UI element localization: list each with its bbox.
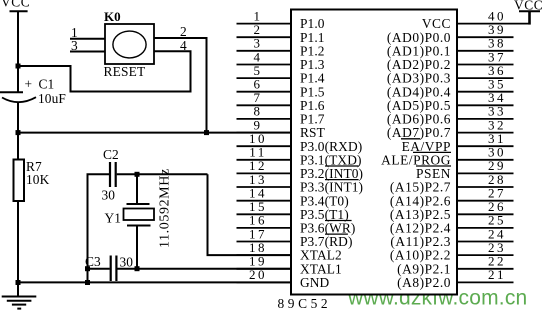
capacitor C2 30pF (102, 147, 119, 203)
wire pin 40 stub (457, 23, 530, 25)
svg-text:40: 40 (488, 8, 506, 23)
svg-text:3: 3 (71, 38, 78, 53)
wire pin 8 stub (237, 118, 292, 120)
wire pin 27 stub (457, 200, 514, 202)
svg-text:Y1: Y1 (105, 211, 122, 226)
svg-text:VCC: VCC (1, 0, 30, 10)
wire pin 22 stub (457, 268, 514, 270)
resistor R7 10K (14, 159, 50, 201)
node junction pin2 wire to RST wire (204, 130, 209, 135)
wire button pin3 stub (70, 51, 105, 53)
node junction rail to button wire (16, 64, 21, 69)
wire pin 20 stub (237, 281, 292, 283)
wire pin 5 stub (237, 77, 292, 79)
ground symbol (2, 297, 37, 309)
svg-text:4: 4 (180, 38, 187, 53)
wire rail below C1 to ground (17, 103, 19, 297)
wire pin 35 stub (457, 91, 514, 93)
wire pin 6 stub (237, 91, 292, 93)
svg-text:(A8)P2.0: (A8)P2.0 (397, 275, 451, 290)
svg-text:RESET: RESET (104, 64, 146, 79)
wire pin 23 stub (457, 254, 514, 256)
svg-text:20: 20 (249, 267, 267, 282)
wire pin 12 stub (237, 172, 292, 174)
wire pin 34 stub (457, 104, 514, 106)
wire pin 21 stub (457, 281, 514, 283)
wire pin 29 stub (457, 172, 514, 174)
wire pin 19 stub (237, 268, 292, 270)
wire pin 28 stub (457, 186, 514, 188)
wire pin 24 stub (457, 241, 514, 243)
wire C2 right to XTAL2 node (117, 173, 208, 175)
svg-text:+: + (25, 77, 33, 92)
wire pin 14 stub (237, 200, 292, 202)
node junction C3 left ground branch (85, 266, 90, 271)
wire pin 10 stub (237, 145, 292, 147)
svg-text:GND: GND (300, 275, 330, 290)
wire pin 1 stub (237, 23, 292, 25)
wire pin 37 stub (457, 64, 514, 66)
IC U1 89C52 body (291, 10, 457, 295)
wire pin 30 stub (457, 159, 514, 161)
node junction rail to ground wire (16, 280, 21, 285)
svg-text:C2: C2 (103, 147, 119, 162)
svg-text:11.0592MHz: 11.0592MHz (158, 168, 173, 248)
wire pin 9 stub (237, 132, 292, 134)
wire pin 36 stub (457, 77, 514, 79)
wire pin 13 stub (237, 186, 292, 188)
wire pin 31 stub (457, 145, 514, 147)
wire XTAL2 node down to pin 18 (208, 174, 292, 255)
wire pin 39 stub (457, 36, 514, 38)
svg-text:10K: 10K (26, 172, 50, 187)
node junction rail to RST wire (16, 130, 21, 135)
capacitor C3 30pF (85, 254, 133, 281)
wire VCC rail vertical (17, 11, 19, 91)
svg-text:30: 30 (120, 255, 134, 270)
crystal Y1 (105, 174, 155, 268)
svg-text:30: 30 (102, 188, 116, 203)
wire pin 25 stub (457, 227, 514, 229)
wire pin 11 stub (237, 159, 292, 161)
svg-text:2: 2 (180, 24, 187, 39)
node junction ground branch ground wire (85, 280, 90, 285)
VCC power symbol top right (514, 0, 543, 25)
wire pin 7 stub (237, 104, 292, 106)
wire button pin4 to VCC rail junction (18, 51, 191, 91)
wire pin 33 stub (457, 118, 514, 120)
wire pin 32 stub (457, 132, 514, 134)
wire pin 2 stub (237, 36, 292, 38)
svg-text:C1: C1 (39, 77, 55, 92)
wire pin 3 stub (237, 50, 292, 52)
wire C3 left to ground branch (88, 268, 110, 270)
wire ground net to pin 20 (18, 281, 291, 283)
wire pin 38 stub (457, 50, 514, 52)
node junction C2 Y1 XTAL2 (135, 172, 140, 177)
wire C2 left to ground branch (88, 174, 110, 282)
wire pin 15 stub (237, 213, 292, 215)
wire button pin2 to RST net (154, 38, 207, 133)
wire pin 26 stub (457, 213, 514, 215)
wire pin 4 stub (237, 64, 292, 66)
wire pin 17 stub (237, 241, 292, 243)
wire RST net to pin 9 (18, 132, 291, 134)
svg-text:10uF: 10uF (38, 91, 66, 106)
VCC power symbol top left (1, 0, 30, 11)
wire XTAL1 net to pin 19 (117, 268, 291, 270)
node junction Y1 C3 XTAL1 (135, 266, 140, 271)
wire pin 16 stub (237, 227, 292, 229)
capacitor C1 10uF polarized (0, 77, 66, 107)
pushbutton K0 RESET (104, 9, 155, 79)
wire pin 18 stub (237, 254, 292, 256)
svg-text:89C52: 89C52 (278, 296, 332, 311)
wire button pin1 stub (70, 38, 105, 40)
svg-text:K0: K0 (104, 9, 121, 24)
